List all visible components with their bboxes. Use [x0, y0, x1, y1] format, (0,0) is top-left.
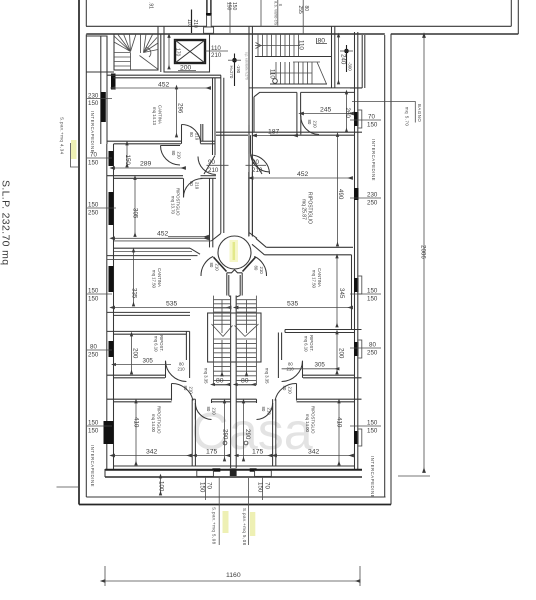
window label 150/150 east lower: [350, 420, 381, 435]
main west wall lower: [106, 144, 108, 469]
mini room east top wall: [236, 398, 256, 400]
svg-text:210: 210: [189, 387, 194, 395]
marker -300 room240: [340, 45, 354, 72]
dim 452 ripostiglio 25.87: [253, 177, 353, 179]
svg-text:452: 452: [297, 171, 309, 178]
svg-text:70: 70: [206, 482, 213, 489]
svg-text:mq 25.87: mq 25.87: [301, 199, 307, 220]
svg-text:342: 342: [308, 449, 320, 456]
svg-text:150: 150: [88, 288, 99, 295]
svg-text:210: 210: [211, 52, 222, 59]
door 80 top right: [316, 38, 318, 44]
svg-text:-190: -190: [236, 65, 241, 74]
svg-text:80: 80: [282, 386, 287, 391]
svg-text:210: 210: [192, 20, 198, 29]
ripost 6.10 east room: [285, 329, 362, 331]
central stair outer box: [208, 313, 261, 362]
cantina 14.13 east wall: [212, 78, 214, 155]
svg-text:RIPOST.: RIPOST.: [309, 335, 314, 352]
svg-text:INTERCAPEDINE: INTERCAPEDINE: [90, 445, 95, 487]
svg-text:110: 110: [298, 40, 305, 50]
mini room east door: [257, 403, 273, 420]
svg-text:80: 80: [369, 342, 376, 349]
NE diagonal walls: [249, 233, 257, 239]
window label 230/150 west: [87, 93, 112, 108]
svg-text:230: 230: [367, 192, 378, 199]
dim 245: [304, 113, 354, 115]
svg-text:CANTINA: CANTINA: [317, 268, 322, 287]
svg-text:80: 80: [209, 263, 214, 268]
svg-text:240: 240: [340, 54, 347, 65]
elevator dim 170: [168, 38, 170, 70]
wall below elevator: [107, 74, 221, 76]
cantina 14.13 south wall: [107, 140, 181, 142]
window label 150/150 west lower: [87, 420, 112, 435]
circle landing: [218, 236, 251, 269]
svg-text:150: 150: [88, 428, 99, 435]
corridor east wall (center): [248, 34, 250, 236]
svg-text:80: 80: [206, 407, 211, 412]
mini rooms bottom wall: [192, 465, 276, 467]
arrow into corridor: [168, 236, 209, 238]
door room 245: [301, 116, 319, 135]
svg-text:345: 345: [338, 288, 345, 299]
svg-text:210: 210: [195, 133, 200, 141]
svg-text:INTERCAPEDINE: INTERCAPEDINE: [371, 139, 376, 181]
svg-text:410: 410: [133, 417, 140, 428]
door ripost 6.10 west: [166, 361, 187, 382]
svg-text:mq 3.35: mq 3.35: [204, 368, 209, 384]
svg-text:150: 150: [88, 160, 99, 167]
svg-text:490: 490: [337, 189, 344, 200]
svg-text:170: 170: [175, 48, 181, 57]
dim 200 west: [131, 336, 133, 374]
svg-text:250: 250: [367, 200, 378, 207]
svg-text:150: 150: [367, 420, 378, 427]
ripostiglio 25.87 west/south wall: [248, 172, 250, 237]
svg-text:mq 6.10: mq 6.10: [304, 336, 309, 352]
svg-text:INTERCAPEDINE: INTERCAPEDINE: [370, 456, 375, 498]
svg-text:RIPOST.: RIPOST.: [159, 335, 164, 352]
cantina west north wall: [107, 255, 198, 257]
svg-text:H=270: H=270: [229, 66, 234, 79]
svg-text:1160: 1160: [226, 572, 241, 579]
window label 150/250 west: [87, 202, 116, 217]
window label 70/150 east: [350, 114, 381, 129]
svg-text:80: 80: [307, 120, 312, 125]
dim 290 west: [224, 403, 226, 461]
winder stair treads: [114, 34, 158, 70]
svg-text:250: 250: [88, 210, 99, 217]
svg-text:S.pav.+mq 5,08: S.pav.+mq 5,08: [212, 507, 217, 545]
outer intercapedine east wall: [390, 34, 392, 505]
svg-text:mq 17.50: mq 17.50: [312, 270, 317, 289]
svg-text:210: 210: [288, 387, 293, 395]
svg-text:150: 150: [367, 122, 378, 129]
svg-text:452: 452: [158, 82, 170, 89]
svg-text:250: 250: [367, 350, 378, 357]
svg-text:S.pav.+mq 5,08: S.pav.+mq 5,08: [242, 508, 247, 546]
south corridor notch: [227, 270, 242, 273]
corridor west door 90/210: [248, 125, 250, 154]
svg-text:200: 200: [338, 348, 345, 359]
west corridor walls to circle: [114, 240, 211, 242]
dim 452 cantina 14.13: [115, 87, 211, 89]
ripostiglio 25.87 north wall: [216, 131, 362, 133]
dim 240 room right of stairs: [338, 37, 340, 84]
outer intercapedine west wall: [78, 0, 80, 505]
dim 289 corridor: [115, 167, 186, 169]
ripostiglio 14.00 east walls: [297, 398, 362, 400]
dim 296 cantina 14.13: [176, 89, 178, 137]
svg-text:210: 210: [212, 408, 217, 416]
main south wall: [105, 469, 362, 471]
svg-text:80: 80: [189, 132, 194, 137]
door SE of circle: [254, 256, 266, 276]
top-right corner verticals: [510, 0, 512, 26]
dim 2006 vertical: [423, 38, 425, 473]
svg-text:410: 410: [336, 417, 343, 428]
dim 305 ripostiglio 13.70: [134, 180, 136, 237]
svg-text:70: 70: [264, 482, 271, 489]
svg-text:80: 80: [189, 181, 194, 186]
marker -190 H=270: [228, 52, 249, 86]
svg-text:175: 175: [206, 449, 218, 456]
main west wall upper: [100, 36, 102, 144]
dim 100 bottom left: [160, 478, 162, 495]
svg-text:S.L.P. 232.70 mq: S.L.P. 232.70 mq: [0, 180, 12, 265]
svg-text:210: 210: [215, 264, 220, 272]
door SW of circle: [201, 256, 213, 276]
top band separators: [157, 26, 159, 34]
svg-text:INTERCAPEDINE: INTERCAPEDINE: [90, 111, 95, 153]
corridor door arc upper-left: [161, 145, 181, 147]
window label 150/150 east: [350, 288, 381, 303]
dim 187 corridor right: [257, 135, 298, 137]
mini room west top wall: [212, 398, 231, 400]
svg-text:80: 80: [183, 386, 188, 391]
svg-text:CANTINA: CANTINA: [157, 268, 162, 287]
dim 335: [133, 252, 135, 306]
column circle at stair: [273, 79, 278, 84]
room 245 walls: [254, 92, 297, 96]
svg-text:mq 17.50: mq 17.50: [152, 270, 157, 289]
svg-text:150: 150: [367, 288, 378, 295]
svg-text:342: 342: [146, 449, 158, 456]
elevator car: [175, 40, 205, 63]
door ripostiglio 13.70: [183, 178, 185, 197]
sill boxes east: [358, 110, 362, 128]
dim 290 east: [243, 403, 245, 461]
winder stair top-left box: [114, 34, 158, 70]
svg-text:80: 80: [254, 266, 259, 271]
svg-text:-300: -300: [348, 62, 353, 71]
dim 535 east: [238, 307, 353, 309]
dim 175 east: [238, 455, 271, 457]
svg-text:535: 535: [166, 301, 178, 308]
section tick bottom left: [57, 486, 80, 488]
window label 80/250 east: [350, 342, 381, 357]
svg-text:535: 535: [287, 301, 299, 308]
svg-text:150: 150: [88, 202, 99, 209]
bagno label bracket: [352, 102, 415, 123]
dim 175 west: [196, 455, 229, 457]
svg-text:210: 210: [259, 267, 264, 275]
door ripost 6.10 east: [282, 361, 303, 382]
shaft west wall line: [160, 34, 162, 72]
dim 342 east: [277, 455, 354, 457]
dim 200 east: [336, 334, 338, 374]
svg-text:70: 70: [90, 152, 97, 159]
svg-text:s.p. esistente h.270: s.p. esistente h.270: [245, 52, 249, 80]
svg-text:mq 14.00: mq 14.00: [305, 414, 310, 433]
window label 150/150 west: [87, 288, 112, 303]
window markers west lower: [109, 151, 114, 166]
svg-text:255: 255: [297, 6, 303, 15]
svg-text:CANTINA: CANTINA: [158, 105, 163, 124]
window marker west upper: [101, 92, 106, 122]
svg-text:245: 245: [320, 107, 332, 114]
ripostiglio 13.70 north wall: [107, 175, 183, 177]
svg-text:.91: .91: [148, 2, 154, 9]
svg-text:RIPOSTIGLIO: RIPOSTIGLIO: [311, 406, 316, 434]
svg-text:452: 452: [157, 231, 169, 238]
door cantina 14.13: [181, 125, 183, 144]
bagno walls top right: [361, 35, 363, 88]
svg-text:150: 150: [367, 296, 378, 303]
svg-text:335: 335: [131, 288, 138, 299]
main east wall: [354, 32, 356, 469]
svg-text:305: 305: [315, 362, 326, 369]
svg-text:150: 150: [88, 100, 99, 107]
svg-text:210: 210: [313, 121, 318, 129]
svg-text:210: 210: [177, 152, 182, 160]
svg-text:200: 200: [132, 348, 139, 359]
svg-text:150: 150: [367, 428, 378, 435]
corridor west wall (center): [220, 75, 222, 233]
svg-text:mq 5.70: mq 5.70: [405, 107, 410, 126]
elevator label 110/210: [205, 50, 228, 52]
svg-text:110: 110: [269, 69, 276, 79]
dim 410 east: [338, 403, 340, 465]
mini room circles: [223, 441, 227, 445]
leader lines below plan: [218, 478, 220, 545]
svg-text:289: 289: [140, 161, 152, 168]
svg-text:210: 210: [208, 167, 219, 174]
center stair flight 2: [270, 62, 327, 84]
svg-text:BAGNO: BAGNO: [417, 104, 422, 122]
window label 70/150 west: [87, 152, 112, 167]
svg-text:305: 305: [132, 208, 139, 219]
svg-text:210: 210: [195, 182, 200, 190]
svg-text:210: 210: [178, 367, 186, 372]
dim 260 room 245: [346, 94, 348, 132]
svg-text:mq 14.13: mq 14.13: [152, 107, 157, 126]
svg-text:80: 80: [261, 407, 266, 412]
svg-text:80: 80: [90, 344, 97, 351]
dim 80 stair east: [237, 384, 255, 386]
bottom window markers: [212, 468, 220, 471]
svg-text:mq 3.35: mq 3.35: [265, 368, 270, 384]
svg-text:210: 210: [267, 408, 272, 416]
svg-text:mq 14.00: mq 14.00: [151, 414, 156, 433]
svg-text:80: 80: [318, 38, 326, 45]
window markers east: [354, 112, 359, 126]
stair west flight: [212, 296, 233, 385]
ripost 6.10 west room: [107, 311, 190, 313]
corridor east door 90/210: [198, 157, 216, 175]
svg-text:80: 80: [216, 378, 224, 385]
circle highlight: [230, 240, 239, 262]
wall below stairs: [249, 87, 363, 89]
svg-text:100: 100: [158, 481, 165, 492]
svg-text:110: 110: [211, 45, 221, 52]
svg-text:305: 305: [143, 358, 154, 365]
svg-text:150: 150: [88, 420, 99, 427]
window label 80/250 west: [87, 344, 112, 359]
dim 1160: [105, 580, 360, 582]
svg-text:2006: 2006: [420, 245, 427, 259]
door lower west 80/210: [172, 383, 194, 400]
dim 345: [336, 258, 338, 327]
svg-text:80: 80: [303, 6, 309, 12]
ripostiglio 14.00 west walls: [107, 398, 172, 400]
svg-text:150: 150: [88, 296, 99, 303]
svg-text:290: 290: [244, 429, 251, 440]
top band wall: [86, 25, 511, 27]
svg-text:S.pav.+mq 4,34: S.pav.+mq 4,34: [60, 117, 65, 155]
svg-text:150: 150: [124, 155, 131, 166]
svg-text:RIPOSTIGLIO: RIPOSTIGLIO: [157, 406, 162, 434]
stair east flight: [235, 296, 259, 385]
dim 535 west: [115, 307, 232, 309]
outer intercapedine south wall: [86, 496, 385, 498]
svg-text:mq 6.10: mq 6.10: [154, 336, 159, 352]
south corridor walls: [226, 273, 228, 296]
stair shaft east wall: [331, 34, 333, 88]
elevator shaft: [164, 34, 210, 72]
svg-text:175: 175: [252, 449, 264, 456]
pillar top: [206, 0, 208, 14]
svg-text:250: 250: [88, 352, 99, 359]
svg-text:290: 290: [222, 429, 229, 440]
dim 150 corridor: [126, 145, 128, 167]
ripostiglio 13.70 east wall: [209, 178, 211, 247]
dim 490 ripostiglio 25.87: [337, 137, 339, 247]
top-left small room: [86, 36, 107, 72]
svg-text:70: 70: [368, 114, 375, 121]
svg-text:mq 13.70: mq 13.70: [171, 196, 176, 215]
center stair flight 1: [255, 34, 300, 56]
yellow highlights bottom: [223, 511, 229, 533]
svg-text:296: 296: [177, 103, 184, 114]
svg-text:150: 150: [226, 2, 232, 11]
window label 230/250 east: [350, 192, 381, 207]
svg-text:80: 80: [171, 151, 176, 156]
svg-text:80: 80: [241, 378, 249, 385]
svg-text:260: 260: [344, 108, 351, 119]
svg-text:150: 150: [199, 482, 206, 493]
dim 452 ripostiglio 13.70: [115, 237, 209, 239]
door ripostiglio 25.87: [250, 153, 269, 173]
mini room west door: [195, 403, 211, 420]
central stair spine wall: [230, 296, 232, 469]
dim 410 west: [135, 403, 137, 465]
dim 80 stair west: [215, 384, 230, 386]
door lower east 80/210: [275, 383, 297, 400]
dim 342 west: [115, 455, 192, 457]
